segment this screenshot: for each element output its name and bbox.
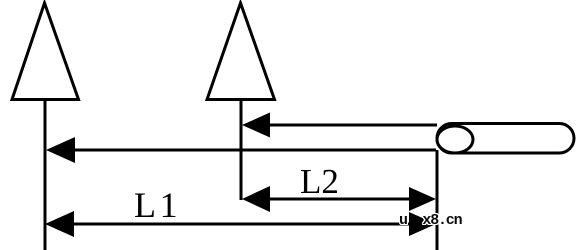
handle end ellipse [437, 126, 473, 153]
handle capsule (rounded cylinder) [437, 124, 574, 154]
force arrow triangle 2 (middle, hollow, pointing up) [207, 3, 275, 100]
label L1 [134, 184, 178, 226]
middle arrow head (solid, pointing left) [46, 137, 75, 163]
label L2 [300, 162, 339, 202]
pole 1 (left vertical line) [44, 100, 47, 250]
force arrow triangle 1 (left, hollow, pointing up) [12, 3, 79, 100]
watermark [399, 212, 461, 229]
right vertical line [436, 150, 439, 250]
L1 left arrowhead [45, 211, 74, 237]
upper arrow head (solid, pointing left) [242, 113, 270, 138]
L1 dimension arrow line [66, 223, 415, 226]
upper arrow line (to handle) [262, 124, 437, 127]
L1 right arrowhead [409, 212, 436, 236]
pole 2 (middle vertical line) [240, 100, 243, 201]
L2 left arrowhead [242, 186, 270, 212]
L2 dimension arrow line [262, 198, 415, 201]
middle arrow line [66, 149, 436, 152]
L2 right arrowhead [409, 187, 436, 211]
